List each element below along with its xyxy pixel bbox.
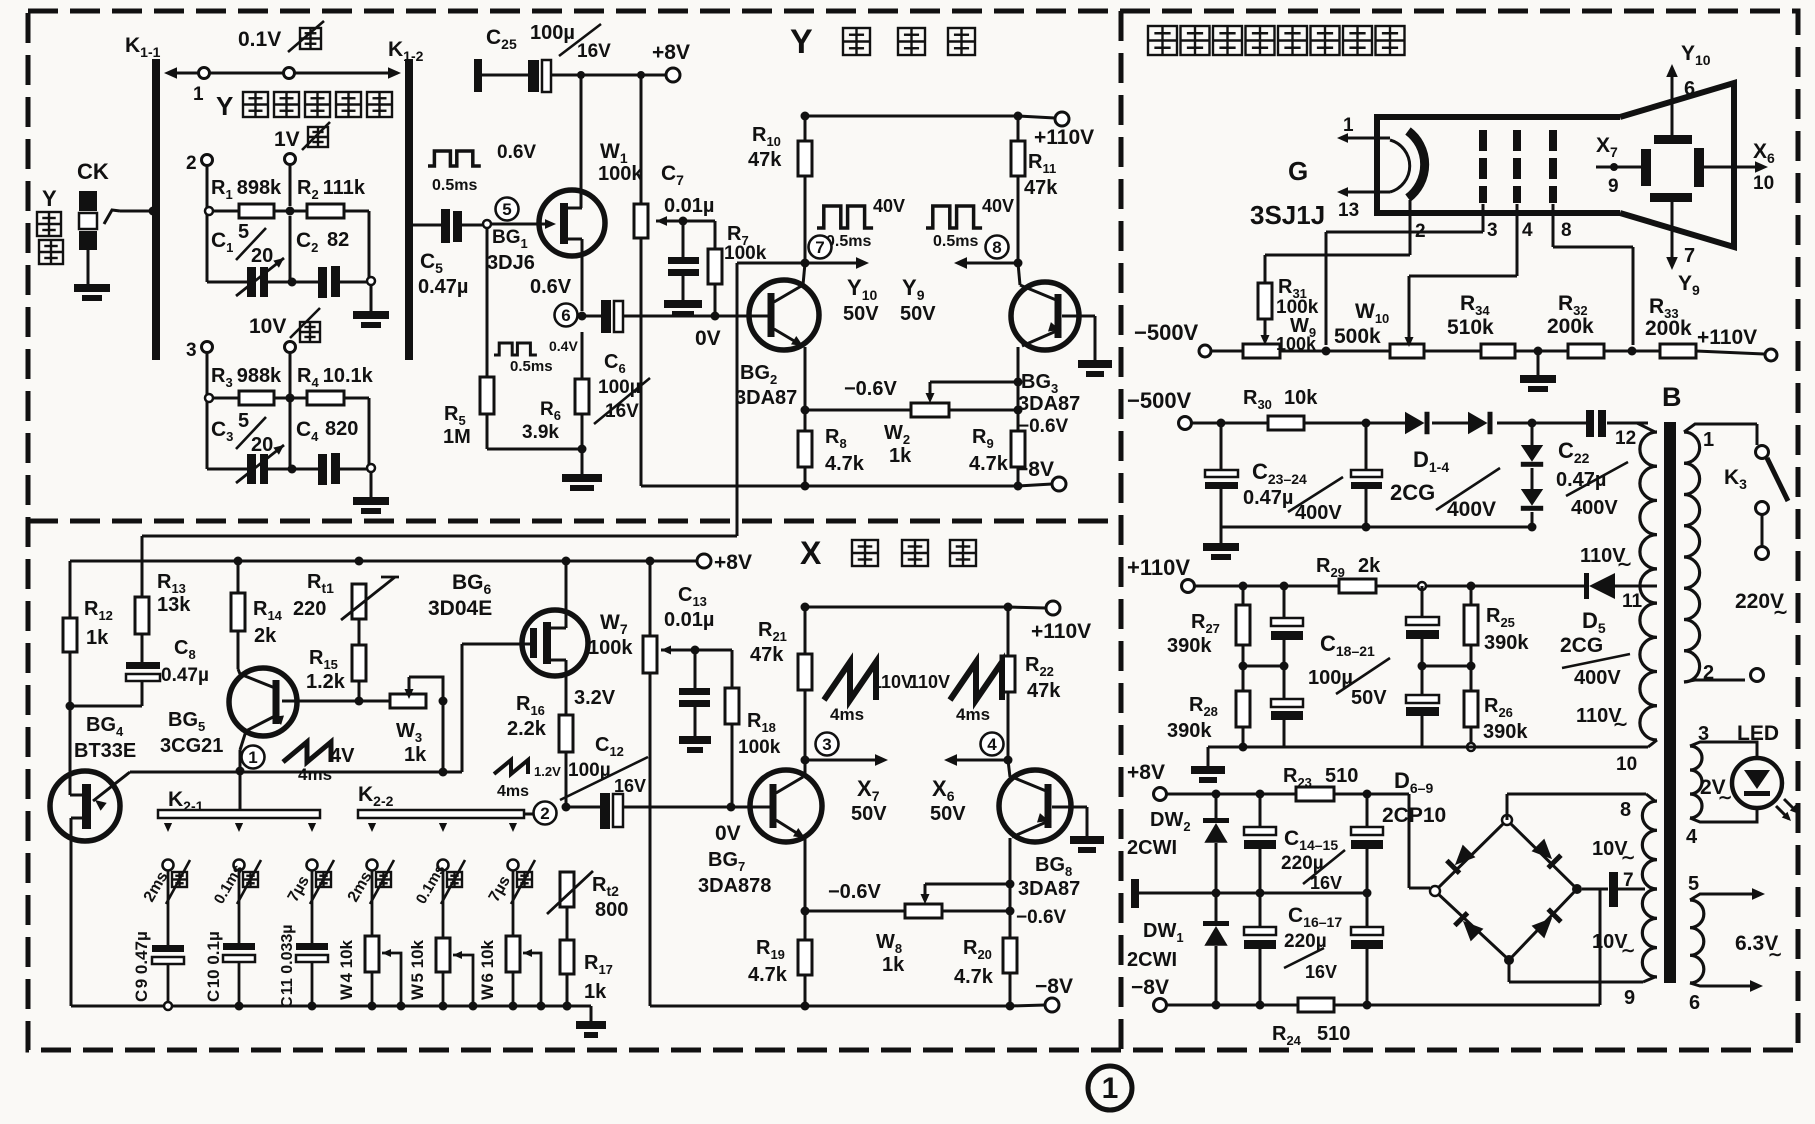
capacitor C8 bbox=[126, 662, 160, 669]
CRT pin 8 lead bbox=[1552, 204, 1555, 247]
transformer 10V winding lower bbox=[1642, 889, 1657, 977]
wire R28 leads bbox=[1242, 666, 1245, 691]
wire R14 leads bbox=[237, 561, 240, 593]
circled 6 bbox=[555, 304, 578, 327]
svg-text:4ms: 4ms bbox=[956, 705, 990, 724]
wire 10V winding top lead bbox=[1646, 794, 1655, 801]
wire R3 lead bbox=[214, 397, 239, 400]
svg-text:1k: 1k bbox=[404, 744, 427, 766]
wire R25 leads bbox=[1470, 586, 1473, 605]
svg-text:1k: 1k bbox=[889, 445, 912, 467]
transformer 10V winding upper bbox=[1642, 801, 1657, 889]
svg-text:50V: 50V bbox=[843, 303, 879, 325]
capacitor C16 bbox=[1259, 893, 1262, 927]
switch contact W6 + potentiometer W6 bbox=[509, 823, 517, 832]
wire R9 leads bbox=[1017, 410, 1020, 431]
capacitor pin7 bar bbox=[1609, 872, 1618, 907]
svg-text:200k: 200k bbox=[1547, 315, 1594, 338]
wire bridge top to pin8 bbox=[1506, 794, 1509, 820]
resistor R18 bbox=[725, 688, 739, 724]
svg-text:1.2V: 1.2V bbox=[534, 764, 561, 779]
svg-text:110V: 110V bbox=[909, 672, 950, 692]
svg-text:+110V: +110V bbox=[1034, 126, 1094, 149]
svg-text:50V: 50V bbox=[851, 803, 887, 825]
capacitor C13 bbox=[679, 688, 710, 695]
wire +8V rail X bbox=[70, 560, 697, 563]
bridge diode TR bbox=[1532, 839, 1563, 870]
arrow to Y9 bbox=[963, 262, 1018, 265]
transistor BG4 UJT bbox=[50, 771, 120, 841]
svg-text:200k: 200k bbox=[1645, 317, 1692, 340]
svg-text:+8V: +8V bbox=[652, 41, 690, 64]
svg-text:16V: 16V bbox=[1305, 962, 1337, 982]
wire R8 leads bbox=[804, 410, 807, 431]
capacitor C25 bbox=[528, 60, 539, 92]
svg-text:C 9 0.47µ: C 9 0.47µ bbox=[132, 931, 151, 1002]
arrow to X6 bbox=[953, 759, 1008, 762]
wire R20 leads bbox=[1009, 911, 1012, 938]
CRT pin 13 lead bbox=[1343, 191, 1390, 194]
svg-text:10k: 10k bbox=[1284, 387, 1318, 409]
zener DW1 bbox=[1215, 893, 1218, 921]
circled 8 bbox=[986, 236, 1009, 259]
wire 6.3V top lead bbox=[1690, 894, 1755, 900]
svg-text:CK: CK bbox=[77, 159, 109, 184]
capacitor C3 variable bbox=[247, 454, 256, 484]
resistor R14 bbox=[231, 593, 245, 631]
circled 1 bbox=[242, 746, 265, 769]
switch contact W4 + potentiometer W4 bbox=[368, 823, 376, 832]
squarewave 40V right bbox=[926, 206, 982, 228]
svg-text:0V: 0V bbox=[695, 327, 721, 350]
svg-text:47k: 47k bbox=[750, 644, 784, 666]
svg-text:3DA878: 3DA878 bbox=[698, 875, 771, 897]
resistor R28 bbox=[1236, 691, 1250, 727]
wire 110V bottom rail bbox=[1208, 746, 1648, 749]
svg-text:1: 1 bbox=[193, 84, 204, 105]
node C4 right circle bbox=[367, 464, 375, 472]
svg-text:400V: 400V bbox=[1571, 497, 1618, 519]
node contact 3 bbox=[202, 342, 213, 353]
node 3 dot bbox=[801, 756, 810, 765]
svg-text:+8V: +8V bbox=[714, 551, 752, 574]
potentiometer W8 bbox=[905, 904, 942, 918]
wire R16 down bbox=[565, 752, 568, 807]
terminal -8V LV bbox=[1154, 999, 1167, 1012]
wire BG6 drain bbox=[565, 561, 568, 611]
CRT grid 1 bars bbox=[1479, 130, 1487, 151]
svg-text:400V: 400V bbox=[1447, 498, 1496, 521]
resistor R10 bbox=[798, 141, 812, 176]
node 8 dot bbox=[1014, 259, 1023, 268]
wire bridge right to pin7 bbox=[1582, 888, 1608, 891]
svg-text:2: 2 bbox=[1703, 662, 1714, 684]
node R14 top bbox=[234, 557, 243, 566]
node 4 dot bbox=[1004, 756, 1013, 765]
svg-text:220: 220 bbox=[293, 598, 326, 620]
arrow to Y10 bbox=[805, 262, 860, 265]
wire LED leads bbox=[1690, 742, 1757, 757]
divider Y/X dashed line bbox=[28, 519, 1121, 524]
svg-text:G: G bbox=[1288, 156, 1308, 186]
svg-text:100k: 100k bbox=[598, 163, 643, 185]
wire pin7 to winding bbox=[1618, 888, 1645, 891]
svg-text:4: 4 bbox=[987, 735, 997, 754]
wire timing row bbox=[130, 771, 462, 774]
bridge vertex bottom bbox=[1504, 955, 1514, 965]
capacitor C5 bbox=[441, 209, 450, 243]
svg-text:+8V: +8V bbox=[1127, 761, 1165, 784]
CRT pin 2 lead bbox=[1409, 200, 1412, 255]
capacitor C1 variable bbox=[247, 267, 256, 297]
sawtooth 4V bbox=[283, 742, 331, 762]
resistor R11 bbox=[1011, 141, 1025, 176]
wire BG5 base row bbox=[282, 700, 390, 703]
wire mid column bbox=[289, 216, 292, 282]
svg-text:5: 5 bbox=[238, 410, 249, 432]
svg-text:47k: 47k bbox=[1024, 177, 1058, 199]
svg-text:+110V: +110V bbox=[1697, 326, 1757, 349]
wire C5 to gate bbox=[462, 224, 487, 227]
wire wiper to C13 bbox=[694, 650, 697, 688]
wire HV winding bottom pin10 bbox=[1648, 740, 1657, 747]
resistor Rt2 thermistor bbox=[560, 872, 574, 907]
svg-text:C 10 0.1µ: C 10 0.1µ bbox=[204, 931, 223, 1002]
svg-text:∼: ∼ bbox=[1621, 848, 1635, 867]
svg-text:11: 11 bbox=[1622, 591, 1643, 612]
wire trigger takeoff bbox=[737, 262, 805, 265]
diode D1 bbox=[1405, 412, 1425, 435]
svg-text:50V: 50V bbox=[930, 803, 966, 825]
node R1 left small circle bbox=[205, 207, 213, 215]
svg-text:B: B bbox=[1662, 382, 1682, 412]
svg-text:3: 3 bbox=[822, 735, 831, 754]
svg-text:100µ: 100µ bbox=[530, 22, 575, 44]
transformer HV winding bbox=[1640, 432, 1657, 740]
potentiometer W2 bbox=[911, 403, 949, 417]
switch contact C10 + capacitor C10 bbox=[235, 823, 243, 832]
terminal +8V X bbox=[697, 554, 711, 568]
svg-text:∼: ∼ bbox=[1617, 554, 1632, 574]
svg-text:400V: 400V bbox=[1295, 502, 1342, 524]
divider right-section dashed line bbox=[1119, 11, 1124, 1050]
ground BG3 base bbox=[1078, 360, 1112, 368]
wire K2-2 to node2 bbox=[524, 813, 533, 816]
page number 1 bbox=[1088, 1066, 1132, 1110]
svg-text:4.7k: 4.7k bbox=[748, 964, 788, 986]
resistor R8 bbox=[798, 431, 812, 467]
resistor R12 bbox=[63, 618, 77, 652]
wire R19 leads bbox=[804, 911, 807, 940]
wire R26 leads bbox=[1470, 666, 1473, 691]
svg-text:2: 2 bbox=[186, 153, 197, 174]
circled 3 bbox=[816, 733, 839, 756]
transformer primary winding bbox=[1684, 432, 1700, 682]
wire mid rail 0V bbox=[1131, 879, 1139, 908]
svg-text:100k: 100k bbox=[738, 737, 781, 758]
svg-text:3DA87: 3DA87 bbox=[1018, 393, 1080, 415]
wire HV tap 11 bbox=[1640, 585, 1657, 588]
CRT heater arc bbox=[1408, 131, 1425, 198]
svg-text:500k: 500k bbox=[1334, 325, 1381, 348]
terminal +8V top bbox=[666, 68, 680, 82]
svg-text:7: 7 bbox=[1623, 870, 1634, 891]
svg-text:3SJ1J: 3SJ1J bbox=[1250, 200, 1325, 230]
svg-text:1k: 1k bbox=[86, 627, 109, 649]
svg-text:510: 510 bbox=[1325, 765, 1358, 787]
resistor R26 bbox=[1464, 691, 1478, 727]
terminal -500V pots bbox=[1199, 345, 1211, 357]
svg-text:10: 10 bbox=[1753, 173, 1774, 194]
svg-text:+110V: +110V bbox=[1031, 620, 1091, 643]
svg-text:0.4V: 0.4V bbox=[549, 338, 578, 354]
wire rail 10V row bbox=[207, 468, 247, 471]
wire W2 wiper row bbox=[930, 381, 1018, 384]
ground 110V row bbox=[1207, 747, 1210, 766]
sawtooth 1.2V bbox=[494, 760, 528, 774]
CRT X6 lead bbox=[1704, 166, 1759, 169]
svg-text:82: 82 bbox=[327, 229, 349, 251]
svg-text:1k: 1k bbox=[882, 954, 905, 976]
svg-text:390k: 390k bbox=[1167, 635, 1212, 657]
svg-text:R4 10.1k: R4 10.1k bbox=[297, 365, 374, 390]
svg-text:+110V: +110V bbox=[1127, 555, 1190, 580]
svg-text:13: 13 bbox=[1338, 200, 1359, 221]
svg-text:1: 1 bbox=[1102, 1072, 1119, 1105]
svg-text:3: 3 bbox=[1487, 220, 1498, 241]
transistor BG7 NPN bbox=[750, 770, 822, 842]
circled 4 bbox=[981, 733, 1004, 756]
resistor R27 bbox=[1236, 605, 1250, 645]
svg-text:6: 6 bbox=[1689, 992, 1700, 1014]
capacitor C20 bbox=[1421, 586, 1424, 617]
svg-text:20: 20 bbox=[251, 245, 273, 267]
svg-text:16V: 16V bbox=[614, 776, 646, 796]
wire BG6 source bbox=[565, 677, 568, 715]
terminal +8V LV bbox=[1154, 788, 1167, 801]
svg-text:2k: 2k bbox=[1358, 555, 1381, 577]
wire R7 down bbox=[714, 284, 717, 316]
wire emitter row Y bbox=[805, 409, 911, 412]
wire to ground 1V bbox=[370, 286, 373, 311]
CRT Y10 lead bbox=[1671, 73, 1674, 135]
svg-text:2CWI: 2CWI bbox=[1127, 837, 1177, 859]
wire C8 bottom bbox=[141, 681, 144, 706]
terminal -8V X bbox=[1045, 998, 1059, 1012]
bridge diode BR bbox=[1532, 907, 1563, 938]
arrow to X7 bbox=[805, 759, 879, 762]
zener DW2 bbox=[1215, 794, 1218, 818]
svg-text:5: 5 bbox=[238, 221, 249, 243]
transistor BG3 NPN bbox=[1011, 282, 1079, 350]
wire pot chain bbox=[1211, 350, 1243, 353]
wire R11 leads bbox=[1017, 116, 1020, 141]
wire R2 right corner bbox=[344, 210, 369, 213]
switch K1-2 wafer bar bbox=[405, 59, 413, 360]
svg-text:0.5ms: 0.5ms bbox=[510, 358, 553, 375]
resistor Rt1 thermistor bbox=[352, 584, 366, 619]
resistor R33 bbox=[1660, 344, 1696, 358]
capacitor C15 bbox=[1366, 794, 1369, 827]
svg-text:−8V: −8V bbox=[1131, 976, 1169, 999]
svg-text:40V: 40V bbox=[873, 196, 905, 216]
resistor R24 bbox=[1298, 998, 1334, 1012]
svg-text:0.5ms: 0.5ms bbox=[826, 233, 871, 250]
svg-text:4.7k: 4.7k bbox=[954, 966, 994, 988]
CRT pin 4 lead bbox=[1516, 204, 1519, 276]
svg-text:13k: 13k bbox=[157, 594, 191, 616]
switch contact W5 + potentiometer W5 bbox=[439, 823, 447, 832]
resistor R22 bbox=[1001, 656, 1015, 692]
switch CK tick bbox=[104, 210, 120, 224]
svg-text:110V: 110V bbox=[872, 672, 913, 692]
wire CK stem bbox=[87, 250, 90, 284]
wire HV row bbox=[1192, 422, 1268, 425]
svg-text:∼: ∼ bbox=[1718, 788, 1732, 807]
svg-text:16V: 16V bbox=[1310, 873, 1342, 893]
CRT Y9 lead bbox=[1671, 202, 1674, 261]
wire R1 lead bbox=[214, 210, 239, 213]
svg-text:1k: 1k bbox=[584, 981, 607, 1003]
resistor R21 bbox=[798, 654, 812, 690]
svg-text:50V: 50V bbox=[1351, 687, 1387, 709]
svg-text:−0.6V: −0.6V bbox=[1018, 416, 1069, 437]
transistor BG6 FET bbox=[522, 610, 588, 676]
capacitor C6 bbox=[601, 300, 611, 333]
svg-text:3D04E: 3D04E bbox=[428, 597, 492, 620]
capacitor C17 bbox=[1366, 893, 1369, 927]
svg-text:4ms: 4ms bbox=[298, 765, 332, 784]
resistor R23 bbox=[1296, 787, 1334, 801]
wire bridge bottom to pin9 bbox=[1508, 960, 1511, 982]
node 6 dot bbox=[578, 312, 587, 321]
ground pot chain bbox=[1537, 351, 1540, 375]
wire Rt1-R15 bbox=[358, 619, 361, 645]
title CRT and power supply bbox=[1148, 26, 1177, 55]
switch K1-1 wafer bar bbox=[152, 59, 160, 360]
wire C20 mid tie bbox=[1422, 665, 1471, 668]
wire K2-1 common bbox=[239, 771, 242, 810]
capacitor C2 bbox=[318, 267, 327, 298]
svg-text:2.2k: 2.2k bbox=[507, 718, 547, 740]
switch K2-1 bar bbox=[158, 810, 320, 818]
wire -8V rail Y bbox=[641, 485, 1018, 488]
svg-text:2CG: 2CG bbox=[1560, 634, 1603, 657]
node C2 right circle bbox=[367, 277, 375, 285]
capacitor C25 terminal bar bbox=[474, 59, 482, 92]
wire wiper to R7 bbox=[683, 220, 715, 223]
svg-text:0.47µ: 0.47µ bbox=[161, 665, 209, 686]
CRT cathode arc bbox=[1390, 140, 1410, 192]
wire R13 to C8 bbox=[141, 634, 144, 662]
svg-text:4: 4 bbox=[1686, 826, 1698, 848]
node 7 dot bbox=[801, 259, 810, 268]
svg-text:−0.6V: −0.6V bbox=[844, 378, 897, 400]
connector CK probe bbox=[79, 191, 97, 211]
svg-text:3CG21: 3CG21 bbox=[160, 735, 223, 757]
node row1 left bbox=[199, 68, 210, 79]
svg-text:−0.6V: −0.6V bbox=[828, 881, 881, 903]
resistor R4 bbox=[307, 391, 344, 405]
svg-text:C 11 0.033µ: C 11 0.033µ bbox=[279, 924, 296, 1008]
wire W1 column top bbox=[640, 75, 643, 204]
squarewave 40V left bbox=[817, 206, 873, 228]
svg-text:3.9k: 3.9k bbox=[522, 422, 559, 443]
wire R27 leads bbox=[1242, 586, 1245, 605]
wire R17 down bbox=[566, 974, 569, 1006]
resistor R15 bbox=[352, 645, 366, 681]
wire 0.1V range row bbox=[168, 72, 398, 75]
bridge rectifier D6-9 outline bbox=[1435, 820, 1577, 960]
svg-text:2CWI: 2CWI bbox=[1127, 949, 1177, 971]
svg-text:6: 6 bbox=[1684, 78, 1695, 100]
sawtooth 110V left bbox=[824, 662, 876, 700]
svg-text:390k: 390k bbox=[1483, 721, 1528, 743]
svg-text:20: 20 bbox=[251, 434, 273, 456]
wire K1-2 to C5 bbox=[413, 224, 441, 227]
svg-text:1.2k: 1.2k bbox=[306, 671, 346, 693]
svg-text:−0.6V: −0.6V bbox=[1016, 907, 1067, 928]
wire rail 1V row bbox=[207, 281, 247, 284]
wire R4 right corner bbox=[344, 397, 369, 400]
resistor R32 bbox=[1568, 344, 1604, 358]
svg-text:47k: 47k bbox=[1027, 680, 1061, 702]
wire row to BG6 gate bbox=[461, 644, 464, 772]
wire primary top to K3 bbox=[1684, 424, 1757, 432]
transistor BG8 NPN bbox=[999, 770, 1071, 842]
transformer 6.3V winding bbox=[1690, 900, 1704, 983]
svg-text:∼: ∼ bbox=[1613, 714, 1628, 734]
terminal +110V Y bbox=[1055, 112, 1069, 126]
wire 110V rail bbox=[1195, 585, 1339, 588]
svg-text:W 5 10k: W 5 10k bbox=[408, 939, 427, 1000]
ground BG1 stage bbox=[581, 449, 584, 474]
wire R5-R6 bottom bbox=[487, 448, 582, 451]
svg-text:100k: 100k bbox=[1276, 334, 1317, 354]
svg-text:0.5ms: 0.5ms bbox=[933, 233, 978, 250]
transformer LED winding bbox=[1690, 746, 1702, 818]
svg-text:8: 8 bbox=[1561, 220, 1572, 241]
svg-text:R3 988k: R3 988k bbox=[211, 365, 282, 390]
svg-text:−8V: −8V bbox=[1016, 458, 1054, 481]
bridge vertex left bbox=[1430, 886, 1440, 896]
wire BG5 emitter to row bbox=[239, 750, 242, 771]
wire W3 node down bbox=[442, 701, 445, 772]
wire C6 to base line bbox=[582, 315, 601, 318]
wire wiper to R18 bbox=[695, 649, 732, 652]
svg-text:0.47µ: 0.47µ bbox=[418, 276, 468, 298]
resistor R31 bbox=[1258, 283, 1272, 319]
svg-text:1: 1 bbox=[1343, 115, 1354, 136]
svg-text:W 6 10k: W 6 10k bbox=[478, 939, 497, 1000]
capacitor C21 bbox=[1421, 666, 1424, 695]
svg-text:−500V: −500V bbox=[1127, 388, 1192, 413]
resistor R30 bbox=[1268, 416, 1304, 430]
svg-text:1: 1 bbox=[1703, 429, 1714, 451]
wire C12 to base bbox=[623, 806, 750, 809]
svg-text:800: 800 bbox=[595, 899, 628, 921]
wire R3-R4 junction bbox=[274, 397, 307, 400]
wire C25 to +8V bbox=[551, 74, 666, 77]
wire wiper to C7 bbox=[682, 221, 685, 257]
svg-text:−8V: −8V bbox=[1035, 975, 1073, 998]
svg-text:9: 9 bbox=[1608, 176, 1619, 197]
node W1 wiper bbox=[679, 217, 688, 226]
svg-text:5: 5 bbox=[502, 200, 511, 219]
svg-text:50V: 50V bbox=[900, 303, 936, 325]
capacitor C18 bbox=[1283, 586, 1286, 618]
wire BG3 base to ground bbox=[1062, 315, 1095, 318]
